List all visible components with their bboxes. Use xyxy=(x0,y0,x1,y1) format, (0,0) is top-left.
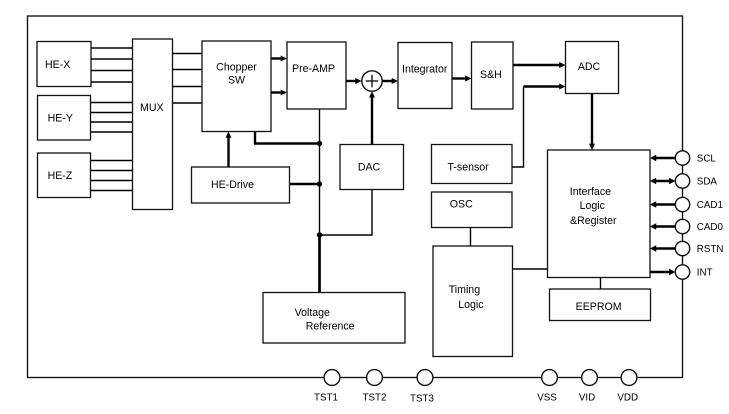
svg-text:INT: INT xyxy=(697,268,713,279)
pin SDA xyxy=(675,174,717,188)
svg-text:OSC: OSC xyxy=(450,199,473,211)
svg-text:T-sensor: T-sensor xyxy=(448,162,490,174)
svg-text:Interface: Interface xyxy=(570,186,611,198)
wire Interface to RSTN pin (arrow into box) xyxy=(650,245,675,252)
svg-text:MUX: MUX xyxy=(140,102,164,114)
wire Chopper SW to Pre-AMP (upper arrow) xyxy=(271,56,287,62)
wire Chopper SW stub down to bus xyxy=(254,132,320,144)
svg-text:Chopper: Chopper xyxy=(216,62,257,74)
svg-text:SDA: SDA xyxy=(697,177,718,188)
box Pre-AMP xyxy=(287,42,346,109)
wire OSC to Timing Logic xyxy=(470,228,472,247)
svg-text:VSS: VSS xyxy=(537,393,557,404)
wire DAC up to summing junction xyxy=(369,91,375,144)
wire HE-Drive right to bus xyxy=(290,183,320,185)
pin CAD1 xyxy=(675,197,723,211)
box MUX xyxy=(133,39,173,210)
pin VDD xyxy=(617,370,638,404)
pin TST3 xyxy=(410,370,435,405)
node junction dot HE-Drive bus xyxy=(317,181,322,186)
pin TST2 xyxy=(363,370,387,404)
pin CAD0 xyxy=(675,219,723,233)
wire Pre-AMP bottom down bus to Voltage Reference xyxy=(319,109,321,293)
svg-text:CAD1: CAD1 xyxy=(697,200,723,211)
box ADC xyxy=(566,42,619,94)
chip outer border xyxy=(28,16,683,378)
box S&H xyxy=(472,42,514,109)
svg-text:CAD0: CAD0 xyxy=(697,222,724,233)
wire HE-X to MUX (4 lines) xyxy=(91,48,133,82)
wire Pre-AMP to summing junction xyxy=(346,78,362,84)
box HE-Z xyxy=(38,153,91,198)
svg-text:TST3: TST3 xyxy=(410,393,435,404)
box OSC xyxy=(432,192,513,228)
svg-text:Integrator: Integrator xyxy=(402,64,448,76)
wire S&H to ADC xyxy=(513,62,566,68)
box Interface Logic &Register xyxy=(548,150,651,278)
svg-text:TST2: TST2 xyxy=(363,392,387,403)
wire T-sensor up to ADC xyxy=(512,84,566,167)
box DAC xyxy=(340,145,404,190)
wire HE-Y to MUX (4 lines) xyxy=(91,103,133,133)
wire HE-Drive to Chopper SW (up arrow) xyxy=(226,132,232,168)
svg-text:S&H: S&H xyxy=(480,69,502,81)
svg-text:EEPROM: EEPROM xyxy=(576,301,622,313)
box EEPROM xyxy=(550,289,651,321)
wire Interface to CAD1 pin (arrow into box) xyxy=(650,201,675,208)
wire DAC bottom to bus xyxy=(320,190,373,236)
box Timing Logic xyxy=(433,246,513,357)
pin INT xyxy=(675,265,712,279)
svg-text:RSTN: RSTN xyxy=(697,244,724,255)
svg-text:Voltage: Voltage xyxy=(295,307,330,319)
svg-text:&Register: &Register xyxy=(570,215,617,227)
wire Timing Logic to Interface xyxy=(513,268,548,270)
wire Interface to EEPROM xyxy=(600,278,602,290)
pin VSS xyxy=(537,370,557,404)
svg-text:Logic: Logic xyxy=(458,299,484,311)
wire Interface to SCL pin (arrow into box) xyxy=(650,155,675,162)
wire Interface to INT pin (arrow out to pin) xyxy=(650,269,675,276)
svg-text:ADC: ADC xyxy=(578,61,601,73)
box HE-Drive xyxy=(192,167,290,203)
pin RSTN xyxy=(675,241,723,255)
wire Interface to SDA pin (double arrow) xyxy=(650,178,675,185)
svg-text:Reference: Reference xyxy=(306,321,355,333)
wire ADC down to Interface xyxy=(589,94,595,151)
wire MUX to Chopper SW (4 lines) xyxy=(173,54,203,104)
node junction dot chopper bus xyxy=(317,141,322,146)
svg-text:Pre-AMP: Pre-AMP xyxy=(292,63,335,75)
svg-text:HE-Drive: HE-Drive xyxy=(211,179,254,191)
box HE-X xyxy=(37,42,91,87)
node junction dot DAC bus xyxy=(317,232,322,237)
pin VID xyxy=(579,370,598,404)
box HE-Y xyxy=(38,96,91,141)
svg-text:TST1: TST1 xyxy=(314,392,338,403)
wire summing junction to Integrator xyxy=(382,78,398,84)
pin SCL xyxy=(675,151,716,165)
summing junction (+) xyxy=(362,71,382,91)
box Integrator xyxy=(398,43,452,109)
svg-text:HE-X: HE-X xyxy=(45,59,70,71)
svg-text:HE-Y: HE-Y xyxy=(48,113,73,125)
wire Chopper SW to Pre-AMP (lower arrow) xyxy=(271,90,287,96)
svg-text:Logic: Logic xyxy=(580,200,606,212)
wire Interface to CAD0 pin (arrow into box) xyxy=(650,223,675,230)
wire Integrator to S&H xyxy=(452,76,472,82)
svg-text:Timing: Timing xyxy=(449,284,481,296)
box Chopper SW xyxy=(202,41,271,132)
svg-text:HE-Z: HE-Z xyxy=(48,170,73,182)
wire HE-Z to MUX (4 lines) xyxy=(91,161,133,191)
svg-text:VID: VID xyxy=(579,393,595,404)
svg-text:SW: SW xyxy=(228,75,245,87)
pin TST1 xyxy=(314,370,340,404)
svg-text:DAC: DAC xyxy=(358,162,381,174)
box Voltage Reference xyxy=(263,293,405,344)
svg-text:VDD: VDD xyxy=(617,393,638,404)
svg-text:SCL: SCL xyxy=(697,154,717,165)
box T-sensor xyxy=(432,145,513,184)
